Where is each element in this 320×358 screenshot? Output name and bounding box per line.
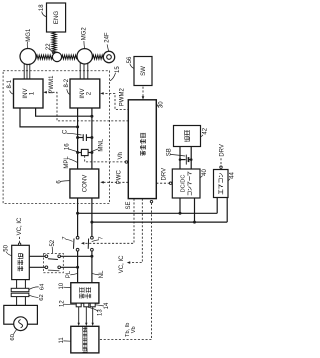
connector 64 bar xyxy=(11,288,29,291)
wires DC/DC down to buses xyxy=(179,198,181,213)
svg-text:MG2: MG2 xyxy=(82,27,88,41)
inverter INV2 (8-2) xyxy=(70,79,100,108)
wires connector to external source xyxy=(16,297,18,306)
auxiliary battery SB xyxy=(180,159,186,161)
signal Vh from sensor 16 to control 30 xyxy=(85,156,126,162)
signal PWC from control 30 to CONV xyxy=(102,181,128,183)
svg-text:40: 40 xyxy=(202,169,208,176)
svg-text:Vh: Vh xyxy=(118,152,124,159)
signal Tb,Ib,Vb from monitoring unit 11 to control 30 xyxy=(99,203,152,340)
svg-text:11: 11 xyxy=(59,337,65,344)
svg-text:12: 12 xyxy=(60,300,66,307)
junction NL-bus xyxy=(90,221,93,224)
svg-text:VC, IC: VC, IC xyxy=(17,217,23,235)
svg-text:14: 14 xyxy=(104,302,110,309)
system main relay 7 (PL side) xyxy=(76,236,79,239)
svg-text:PWM1: PWM1 xyxy=(49,75,55,94)
wires aircon down to buses xyxy=(216,198,218,214)
svg-text:62: 62 xyxy=(39,294,45,300)
svg-text:MG1: MG1 xyxy=(26,28,32,42)
wire MNL rail (INV2 right leg down to CONV) xyxy=(91,108,93,169)
text 制御装置 (control device) xyxy=(141,151,146,156)
charger box 50 (judenki) xyxy=(12,245,30,279)
relay 52 top contact xyxy=(45,255,48,258)
wire PL extension bus to DC/DC and air conditioner xyxy=(78,212,218,214)
capacitor C across MPL-MNL xyxy=(78,137,84,139)
svg-text:7: 7 xyxy=(98,237,104,240)
relay 52 bottom contact xyxy=(45,266,48,269)
svg-text:22: 22 xyxy=(46,43,52,50)
svg-text:PWM2: PWM2 xyxy=(119,88,125,107)
signal PWM2 from control 30 to INV2 xyxy=(102,93,129,109)
svg-text:DRV: DRV xyxy=(161,168,167,181)
svg-text:SW: SW xyxy=(140,66,147,76)
signal SW to control 30 xyxy=(142,87,144,98)
svg-text:8-1: 8-1 xyxy=(7,79,13,88)
svg-text:13: 13 xyxy=(97,309,103,316)
signal PWM1 from control 30 to INV1 xyxy=(45,92,129,121)
junction INV1-MNL xyxy=(90,115,93,118)
svg-text:10: 10 xyxy=(59,282,65,289)
motor-generator MG1 xyxy=(20,49,36,65)
wire MPL rail (INV2 left leg down to CONV) xyxy=(77,108,79,169)
svg-text:7: 7 xyxy=(62,236,68,239)
junction charger-PL xyxy=(76,266,79,269)
svg-text:30: 30 xyxy=(159,101,165,108)
external AC power source box 60 xyxy=(4,305,38,324)
svg-text:42: 42 xyxy=(202,127,208,134)
svg-text:15: 15 xyxy=(115,66,121,73)
junction INV1-MPL xyxy=(76,125,79,128)
wire NL rail (CONV down to battery) xyxy=(91,198,93,237)
signal VC,IC at charger xyxy=(19,237,21,243)
svg-text:DRV: DRV xyxy=(219,144,225,157)
svg-text:24F: 24F xyxy=(105,32,111,43)
power split gear 22 xyxy=(52,52,61,61)
relay box 52 dashed xyxy=(43,253,63,272)
charger down-wires to connector xyxy=(16,280,18,289)
DC/DC converter box 40 xyxy=(172,169,200,198)
dashed enclosure 15 (PCU) xyxy=(3,71,110,204)
svg-text:60: 60 xyxy=(10,334,16,340)
shaft MG1 to gear 22 (hatched) xyxy=(36,55,53,59)
svg-text:SE: SE xyxy=(126,201,132,209)
svg-text:PL: PL xyxy=(66,270,72,278)
wire PL rail (CONV down to battery) xyxy=(77,198,79,237)
svg-text:MPL: MPL xyxy=(64,156,70,169)
svg-text:CONV: CONV xyxy=(81,174,88,193)
voltage sensor 16 xyxy=(81,149,88,155)
auxiliary load box 42 (hoki) xyxy=(174,126,201,147)
inverter INV1 (8-1) xyxy=(14,79,44,108)
control device box 30 xyxy=(128,100,156,199)
wheel 24F xyxy=(103,51,114,62)
svg-text:Vb: Vb xyxy=(131,326,137,333)
motor-generator MG2 xyxy=(77,49,92,64)
wires aux 42 to DC/DC xyxy=(179,147,181,170)
switch SW box (56) xyxy=(134,57,152,86)
svg-text:56: 56 xyxy=(127,56,133,63)
svg-text:52: 52 xyxy=(50,239,56,246)
shaft MG2 to wheel 24F (hatched) xyxy=(92,55,103,59)
sensor tab 12 xyxy=(76,303,81,307)
svg-text:64: 64 xyxy=(39,283,45,290)
sensor tab 14 xyxy=(90,303,95,307)
shaft gear 22 to MG2 (hatched) xyxy=(61,55,77,59)
connector 62 bar xyxy=(11,293,29,296)
svg-text:44: 44 xyxy=(230,172,236,179)
three-phase wires MG1 to INV1 xyxy=(23,64,25,79)
system main relay 7 (NL side) xyxy=(91,236,94,239)
junction charger-NL xyxy=(90,255,93,258)
svg-text:50: 50 xyxy=(3,244,9,251)
svg-text:SB: SB xyxy=(166,148,172,156)
AC source circle xyxy=(14,317,28,331)
power storage device box 10 (chikuden souchi) xyxy=(71,283,99,304)
signal SE from control 30 to system main relays xyxy=(83,199,134,244)
wire charger output top to NL xyxy=(29,255,45,257)
air conditioner box 44 (aircon) xyxy=(214,170,229,198)
wire INV1 right leg to MNL bus xyxy=(36,108,92,116)
signal DRV from control 30 to DC/DC xyxy=(156,182,169,184)
shaft ENG to gear 22 (hatched) xyxy=(52,32,56,53)
wire INV1 left leg to MPL bus xyxy=(20,108,78,127)
junction PL-bus xyxy=(76,212,79,215)
sensor tab 13 xyxy=(84,303,89,307)
signal VC,IC from control 30 toward charger xyxy=(128,199,142,263)
svg-text:PWC: PWC xyxy=(116,170,122,185)
monitoring unit box 11 (kanshi unit) xyxy=(71,326,99,353)
svg-text:ENG: ENG xyxy=(53,11,60,24)
engine ENG box xyxy=(47,3,66,32)
svg-text:DC/DC: DC/DC xyxy=(181,175,187,193)
svg-text:MNL: MNL xyxy=(99,138,105,151)
svg-text:VC, IC: VC, IC xyxy=(119,255,125,273)
three-phase wires MG2 to INV2 xyxy=(79,63,81,79)
svg-text:NL: NL xyxy=(99,270,105,278)
wire NL extension bus xyxy=(92,221,227,223)
signal DRV to air conditioner xyxy=(220,158,222,166)
svg-text:18: 18 xyxy=(39,4,45,11)
wire charger output bottom to PL xyxy=(29,266,45,268)
text konbata (converter katakana) xyxy=(188,192,191,196)
converter CONV (6) xyxy=(70,169,99,198)
svg-text:8-2: 8-2 xyxy=(64,78,70,87)
sensor arrows to monitoring unit xyxy=(78,307,80,324)
